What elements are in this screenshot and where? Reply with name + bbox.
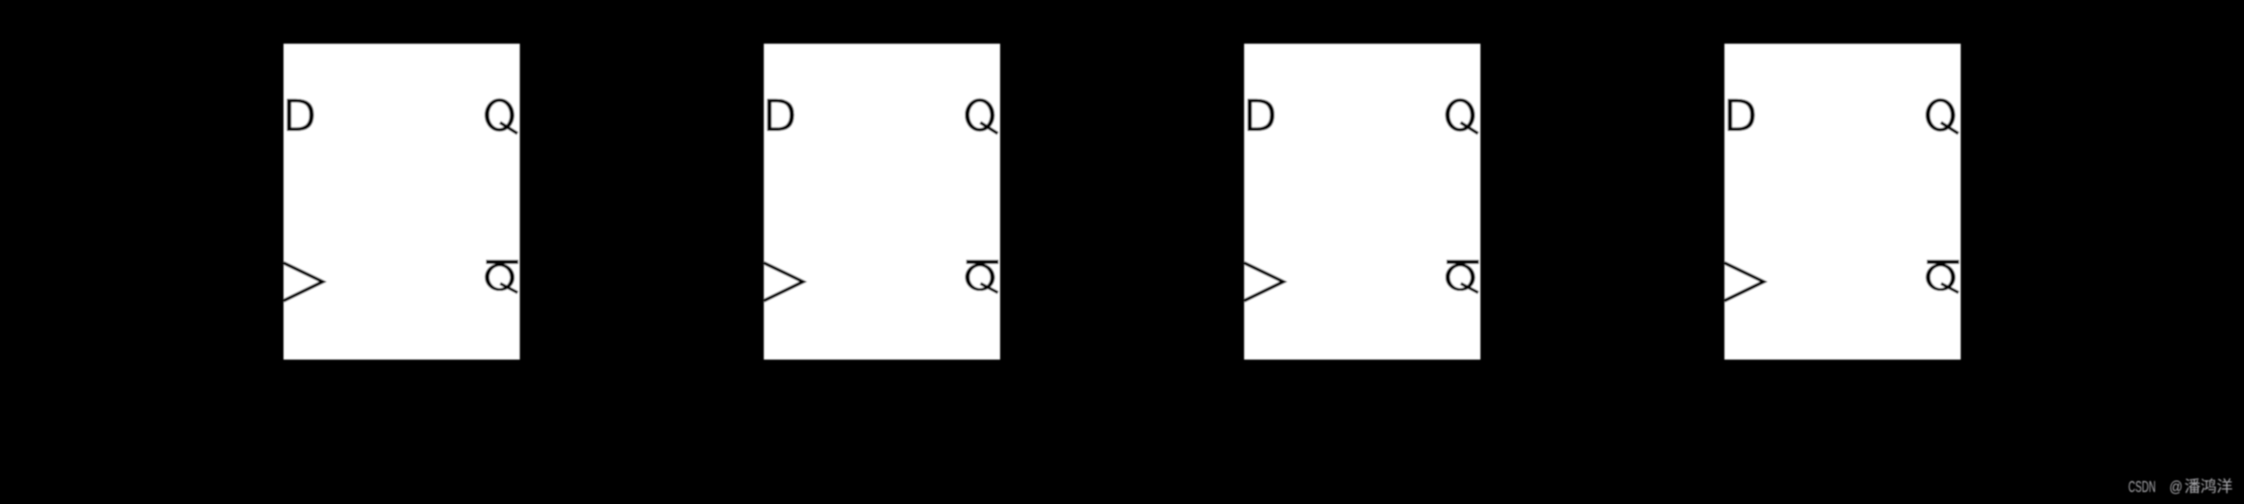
pin label Q-bar (U2 inverted output) [965,263,998,292]
pin label Q-bar (U4 inverted output) [1926,263,1959,292]
overline bar of Q-bar (U2) [966,260,998,264]
pin label D (U3 data input) [1248,99,1275,131]
pin label D (U2 data input) [767,99,794,131]
clock input chevron (U3) [1244,263,1283,301]
flip-flop U3 (D flip-flop) [1244,44,1480,360]
clock input chevron (U2) [764,263,803,301]
flip-flop U2 (D flip-flop) [764,44,1000,360]
overline bar of Q-bar (U1) [486,260,518,264]
pin label D (U4 data input) [1728,99,1755,131]
overline bar of Q-bar (U3) [1447,260,1479,264]
svg-text:CSDN: CSDN [2128,479,2156,496]
pin label Q-bar (U1 inverted output) [485,263,518,292]
flip-flop U1 (D flip-flop) [283,44,519,360]
clock input chevron (U1) [283,263,322,301]
pin label Q (U1 output) [485,98,518,133]
flip-flop U4 (D flip-flop) [1724,44,1960,360]
watermark CJK characters [2185,478,2200,493]
overline bar of Q-bar (U4) [1927,260,1959,264]
body U4 [1724,44,1960,360]
body U3 [1244,44,1480,360]
clock input chevron (U4) [1724,263,1763,301]
body U1 [284,44,520,360]
svg-text:@: @ [2169,479,2182,496]
pin label Q (U3 output) [1445,98,1478,133]
body U2 [764,44,1000,360]
pin label D (U1 data input) [287,99,314,131]
pin label Q (U2 output) [965,98,998,133]
pin label Q-bar (U3 inverted output) [1445,263,1478,292]
pin label Q (U4 output) [1926,98,1959,133]
